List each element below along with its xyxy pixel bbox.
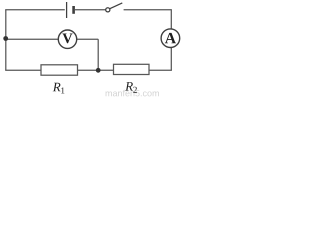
resistor R1 box bbox=[41, 65, 78, 75]
wire switch to top-right corner bbox=[124, 9, 172, 11]
battery long plate bbox=[66, 2, 68, 18]
wire middle branch horizontal to voltmeter bbox=[6, 38, 98, 40]
wire bottom rail bbox=[5, 69, 172, 71]
watermark manfen5.com bbox=[106, 91, 112, 96]
ammeter A circle bbox=[161, 29, 180, 48]
voltmeter letter V bbox=[62, 34, 72, 44]
switch pivot circle bbox=[106, 8, 110, 12]
voltmeter V circle bbox=[58, 30, 76, 48]
junction dot left rail / voltmeter branch bbox=[3, 36, 8, 41]
label R2 bbox=[125, 82, 133, 91]
wire battery to switch bbox=[75, 9, 106, 11]
wire middle branch vertical down to bottom rail bbox=[97, 39, 99, 70]
switch lever arm bbox=[110, 3, 123, 9]
resistor R2 box bbox=[114, 64, 150, 74]
wire top-left horizontal bbox=[5, 9, 65, 11]
battery short plate bbox=[72, 6, 75, 14]
ammeter letter A bbox=[165, 33, 176, 43]
wire right vertical through ammeter bbox=[170, 9, 172, 70]
label R1 bbox=[53, 83, 61, 92]
wire left vertical bbox=[5, 10, 7, 71]
junction dot bottom rail / voltmeter branch bbox=[96, 68, 101, 73]
